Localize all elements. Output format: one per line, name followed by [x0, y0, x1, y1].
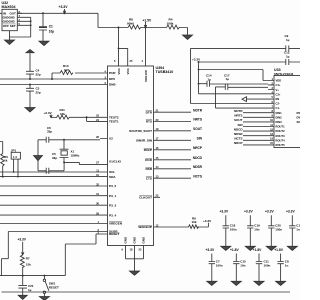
svg-text:VCC: VCC — [126, 67, 130, 74]
svg-text:P3_3: P3_3 — [109, 203, 117, 207]
svg-text:TEST1: TEST1 — [109, 120, 119, 124]
svg-text:DIN3: DIN3 — [276, 120, 283, 124]
svg-text:+3.3V: +3.3V — [44, 111, 53, 115]
svg-text:P3_1: P3_1 — [109, 194, 117, 198]
svg-text:10n: 10n — [254, 227, 259, 231]
svg-text:NRTS: NRTS — [193, 118, 202, 122]
svg-text:ROUT2: ROUT2 — [276, 129, 286, 133]
svg-text:V+: V+ — [276, 88, 280, 92]
svg-text:C1+: C1+ — [276, 83, 281, 87]
svg-text:C2+: C2+ — [276, 92, 281, 96]
svg-text:SIN: SIN — [197, 137, 203, 141]
svg-text:GND: GND — [142, 236, 146, 244]
svg-text:NDCD: NDCD — [234, 127, 243, 131]
svg-text:18: 18 — [130, 248, 133, 252]
svg-text:1k: 1k — [4, 159, 8, 163]
svg-text:C2-: C2- — [276, 102, 280, 106]
svg-text:100n: 100n — [264, 263, 271, 267]
svg-text:X2: X2 — [109, 137, 113, 141]
svg-text:+3.3V: +3.3V — [59, 5, 69, 9]
svg-text:9: 9 — [122, 248, 124, 252]
svg-text:IN: IN — [3, 12, 6, 16]
svg-text:100n: 100n — [230, 227, 237, 231]
svg-text:SCL: SCL — [109, 170, 115, 174]
svg-text:C1-: C1- — [276, 106, 280, 110]
svg-text:GNDGND: GNDGND — [3, 19, 15, 23]
svg-text:22p: 22p — [36, 72, 41, 76]
svg-text:33p: 33p — [52, 156, 57, 160]
svg-text:ROUT5: ROUT5 — [276, 143, 286, 147]
svg-text:5: 5 — [272, 95, 274, 99]
svg-text:ROUT1: ROUT1 — [276, 125, 286, 129]
svg-text:DCD: DCD — [145, 158, 152, 162]
svg-text:TUSB3410: TUSB3410 — [156, 70, 174, 74]
svg-text:GND: GND — [133, 236, 137, 244]
svg-text:10µ: 10µ — [49, 29, 55, 33]
svg-text:RESET: RESET — [109, 232, 119, 236]
svg-text:5: 5 — [114, 59, 116, 63]
svg-text:SN75LVC3243: SN75LVC3243 — [274, 72, 294, 76]
svg-text:+3.3V: +3.3V — [192, 58, 201, 62]
svg-text:10k: 10k — [60, 112, 65, 116]
svg-text:+1.8V: +1.8V — [253, 248, 263, 252]
svg-text:DTR: DTR — [146, 110, 153, 114]
svg-text:SIN/IR_SIN: SIN/IR_SIN — [136, 139, 153, 143]
svg-text:NDTR: NDTR — [193, 108, 203, 112]
svg-text:EN: EN — [276, 97, 280, 101]
svg-text:4: 4 — [142, 59, 144, 63]
svg-text:+3.3V: +3.3V — [205, 248, 215, 252]
svg-text:26: 26 — [96, 135, 99, 139]
svg-text:PUR: PUR — [109, 71, 116, 75]
svg-text:90k0: 90k0 — [127, 22, 134, 26]
svg-text:+1.8V: +1.8V — [230, 248, 240, 252]
svg-text:22p: 22p — [36, 90, 41, 94]
svg-text:1µ: 1µ — [226, 77, 230, 81]
svg-text:NDTR: NDTR — [234, 109, 243, 113]
svg-text:10n: 10n — [240, 263, 245, 267]
svg-text:VDD: VDD — [276, 79, 282, 83]
svg-text:+1.8V: +1.8V — [274, 248, 284, 252]
svg-text:JP1: JP1 — [11, 149, 17, 153]
svg-text:1µ: 1µ — [28, 288, 32, 292]
svg-text:CLKOUT: CLKOUT — [139, 196, 152, 200]
svg-text:DIN2: DIN2 — [276, 115, 283, 119]
svg-text:10k: 10k — [192, 220, 197, 224]
svg-text:MAX604: MAX604 — [2, 5, 16, 9]
svg-text:+3.3V: +3.3V — [286, 210, 296, 214]
svg-text:SDA: SDA — [109, 175, 116, 179]
svg-text:1µ: 1µ — [286, 38, 290, 42]
svg-text:1n: 1n — [296, 227, 300, 231]
svg-text:VDD1V8: VDD1V8 — [144, 70, 148, 82]
svg-text:25: 25 — [130, 59, 133, 63]
svg-text:SIN: SIN — [237, 123, 242, 127]
svg-text:SOUT/IR_SOUT: SOUT/IR_SOUT — [129, 129, 152, 133]
svg-text:+3.3V: +3.3V — [203, 219, 212, 223]
svg-text:VCC: VCC — [117, 67, 121, 74]
svg-text:100k: 100k — [167, 22, 174, 26]
svg-text:1 2: 1 2 — [13, 155, 17, 159]
svg-text:DW: DW — [297, 115, 301, 119]
svg-text:NDSR: NDSR — [193, 165, 203, 169]
svg-text:33p: 33p — [47, 130, 52, 134]
svg-text:+3.3V: +3.3V — [18, 238, 27, 242]
svg-text:NCTS: NCTS — [234, 137, 242, 141]
svg-text:27: 27 — [96, 161, 99, 165]
svg-text:DP0: DP0 — [109, 77, 115, 81]
svg-text:GNDGND: GNDGND — [3, 15, 15, 19]
svg-text:P3_4: P3_4 — [109, 213, 117, 217]
svg-text:VREGEN: VREGEN — [109, 222, 123, 226]
svg-text:+3.3V: +3.3V — [244, 210, 254, 214]
svg-text:1µ: 1µ — [208, 77, 212, 81]
svg-text:X1/CLKI: X1/CLKI — [109, 159, 121, 163]
svg-text:+3.3V: +3.3V — [219, 210, 229, 214]
svg-text:100n: 100n — [216, 263, 223, 267]
svg-text:1n: 1n — [285, 263, 289, 267]
svg-text:SOUT: SOUT — [193, 127, 202, 131]
svg-text:OFF SET: OFF SET — [3, 24, 16, 28]
svg-text:DW: DW — [297, 111, 301, 115]
svg-text:RTS: RTS — [146, 120, 152, 124]
svg-text:100n: 100n — [275, 227, 282, 231]
svg-text:25: 25 — [139, 248, 142, 252]
svg-text:SOUT: SOUT — [234, 118, 243, 122]
svg-text:NCTS: NCTS — [193, 174, 202, 178]
svg-text:GND: GND — [124, 236, 128, 244]
svg-text:NRCP: NRCP — [193, 146, 203, 150]
svg-text:1µ: 1µ — [286, 54, 290, 58]
svg-text:DIN1: DIN1 — [276, 111, 283, 115]
svg-text:DM0: DM0 — [109, 83, 116, 87]
svg-text:OUT: OUT — [10, 12, 17, 16]
svg-text:ROUT3: ROUT3 — [276, 134, 286, 138]
svg-text:R7: R7 — [26, 256, 30, 260]
svg-text:DSR: DSR — [145, 167, 152, 171]
svg-text:+3.3V: +3.3V — [265, 210, 275, 214]
svg-text:RI/CP: RI/CP — [144, 148, 152, 152]
svg-text:RESET: RESET — [49, 285, 59, 289]
svg-text:CTS: CTS — [146, 176, 152, 180]
svg-text:15k: 15k — [26, 262, 31, 266]
svg-text:NRCP: NRCP — [234, 141, 243, 145]
svg-text:NDSR: NDSR — [234, 132, 243, 136]
svg-text:1k5: 1k5 — [64, 68, 69, 72]
svg-text:NDCD: NDCD — [193, 156, 203, 160]
svg-text:P3_0: P3_0 — [109, 184, 117, 188]
svg-text:WAKEUP: WAKEUP — [138, 225, 152, 229]
svg-text:NRTS: NRTS — [234, 114, 242, 118]
svg-text:+1.5V: +1.5V — [143, 19, 153, 23]
svg-text:ROUT4: ROUT4 — [276, 138, 286, 142]
svg-text:12MHz: 12MHz — [71, 154, 80, 158]
svg-text:C1: C1 — [49, 25, 53, 29]
svg-text:SO: SO — [297, 120, 301, 124]
